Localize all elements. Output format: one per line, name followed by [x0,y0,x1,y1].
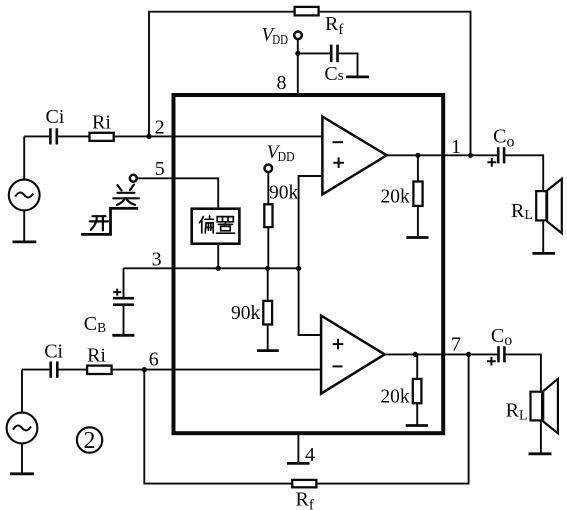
svg-text:DD: DD [272,32,288,48]
svg-text:CB: CB [84,313,106,335]
svg-text:RL: RL [511,200,533,223]
svg-text:7: 7 [451,333,461,355]
svg-text:6: 6 [149,349,159,371]
svg-text:2: 2 [84,428,96,454]
svg-text:Ci: Ci [46,106,65,128]
svg-text:5: 5 [155,158,165,180]
svg-text:20k: 20k [380,386,410,407]
svg-text:DD: DD [278,148,295,164]
svg-text:Rf: Rf [325,13,343,38]
svg-text:Co: Co [491,325,512,349]
svg-text:Ri: Ri [92,111,111,133]
svg-text:Rf: Rf [296,488,314,510]
svg-text:3: 3 [152,248,162,270]
svg-text:8: 8 [277,72,287,94]
svg-text:Ci: Ci [44,341,63,363]
svg-text:90k: 90k [269,183,299,204]
svg-text:2: 2 [155,116,165,138]
svg-text:Ri: Ri [87,344,106,366]
svg-text:RL: RL [506,399,528,423]
svg-text:Cs: Cs [324,63,343,85]
svg-text:1: 1 [451,136,461,158]
svg-text:20k: 20k [381,186,411,207]
svg-text:4: 4 [305,444,315,466]
svg-text:90k: 90k [231,303,261,324]
svg-text:Co: Co [493,126,514,151]
